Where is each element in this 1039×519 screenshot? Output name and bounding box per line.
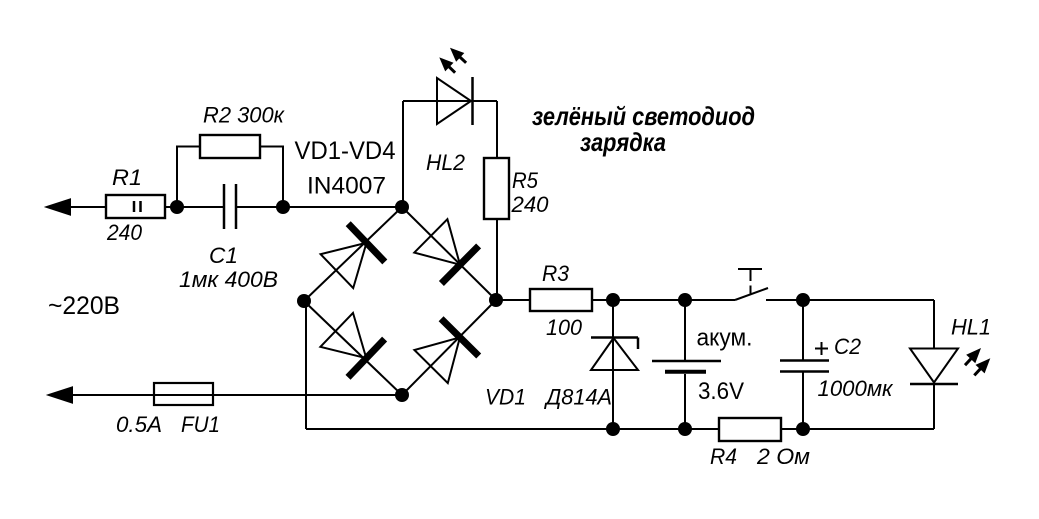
resistor R5	[484, 158, 509, 219]
wire bridge edge bottom-left	[304, 301, 402, 395]
svg-text:240: 240	[106, 220, 143, 245]
wire left drop from bridge left node	[305, 301, 307, 429]
diode VD (bridge bottom-right)	[414, 319, 478, 383]
node C2 top	[796, 293, 810, 307]
wire HL2 loop top horizontal	[403, 100, 497, 102]
svg-text:R5: R5	[512, 168, 539, 193]
switch button actuator	[738, 269, 762, 294]
resistor R3	[530, 289, 592, 311]
wire HL2 loop right vertical	[496, 101, 498, 300]
diode VD (bridge bottom-left)	[320, 313, 384, 377]
node battery top	[678, 293, 692, 307]
wire fuse line	[64, 394, 402, 396]
wire bridge edge top-left	[304, 207, 402, 301]
junction node R2/C1 left	[170, 200, 184, 214]
svg-text:IN4007: IN4007	[307, 173, 386, 200]
svg-text:HL2: HL2	[426, 150, 465, 175]
LED HL2	[437, 77, 473, 125]
wire battery branch upper	[684, 300, 686, 361]
junction node R2/C1 right	[276, 200, 290, 214]
wire R2 left leg	[177, 147, 200, 208]
capacitor C2	[780, 361, 829, 372]
node bridge right	[489, 293, 503, 307]
fuse FU1	[154, 383, 213, 405]
wire zener branch	[612, 300, 614, 429]
svg-text:~220В: ~220В	[48, 292, 120, 320]
svg-text:2 Ом: 2 Ом	[756, 444, 810, 469]
svg-text:R1: R1	[112, 165, 142, 190]
LED HL2 emission arrow 1	[450, 48, 466, 63]
node zener bottom	[606, 422, 620, 436]
svg-text:100: 100	[546, 315, 583, 340]
diode VD (bridge top-right)	[414, 219, 478, 283]
svg-text:1мк 400В: 1мк 400В	[179, 267, 278, 292]
node bridge left	[297, 294, 311, 308]
svg-text:VD1-VD4: VD1-VD4	[295, 137, 396, 165]
wire switch to C2 node	[766, 299, 934, 301]
svg-text:3.6V: 3.6V	[698, 378, 744, 405]
wire R2 right leg	[260, 147, 283, 208]
svg-text:C2: C2	[834, 334, 861, 359]
svg-text:R3: R3	[542, 261, 570, 286]
svg-text:240: 240	[510, 192, 549, 217]
LED HL1	[910, 349, 958, 385]
svg-text:HL1: HL1	[951, 315, 991, 340]
svg-text:FU1: FU1	[181, 412, 220, 437]
wire top-left main (arrow to bridge top node)	[62, 206, 223, 208]
svg-text:C1: C1	[209, 243, 238, 268]
wire HL1 branch lower	[933, 384, 935, 429]
C2 plus sign	[815, 342, 828, 355]
node C2 bottom	[796, 422, 810, 436]
svg-text:R2 300к: R2 300к	[203, 103, 286, 128]
node bridge bottom	[395, 388, 409, 402]
diode VD (bridge top-left)	[321, 224, 385, 288]
svg-text:зарядка: зарядка	[580, 127, 666, 157]
wire bridge edge bottom-right	[402, 300, 496, 395]
wire battery branch lower	[684, 374, 686, 429]
arrow input bottom	[49, 388, 72, 403]
resistor R1	[106, 195, 165, 218]
switch SA lever	[735, 288, 768, 300]
svg-text:0.5A: 0.5A	[116, 412, 162, 437]
resistor R2	[200, 135, 260, 158]
zener diode VD1 Д814А	[591, 338, 638, 371]
wire C1 right to bridge top	[236, 206, 402, 208]
battery GB (акум.)	[652, 361, 721, 372]
LED HL1 emission arrow 1	[965, 348, 981, 365]
wire HL1 branch upper	[933, 300, 935, 348]
node bridge top	[395, 200, 409, 214]
wire right main rail	[496, 299, 735, 301]
wire C2 branch upper	[802, 300, 804, 360]
svg-text:акум.: акум.	[697, 325, 753, 352]
resistor R4	[719, 418, 781, 441]
LED HL1 emission arrow 2	[974, 358, 990, 375]
node zener top	[606, 293, 620, 307]
LED HL2 emission arrow 2	[439, 57, 455, 72]
node battery bottom	[678, 422, 692, 436]
svg-text:Д814А: Д814А	[543, 385, 612, 410]
svg-text:VD1: VD1	[485, 385, 526, 410]
arrow input top	[47, 200, 70, 215]
wire C2 branch lower	[802, 372, 804, 430]
wire HL2 loop left vertical	[402, 101, 404, 207]
wire bridge edge top-right	[402, 207, 496, 300]
wire bottom rail	[306, 428, 934, 430]
svg-text:1000мк: 1000мк	[818, 376, 895, 401]
capacitor C1	[223, 184, 226, 229]
svg-text:R4: R4	[710, 444, 737, 469]
